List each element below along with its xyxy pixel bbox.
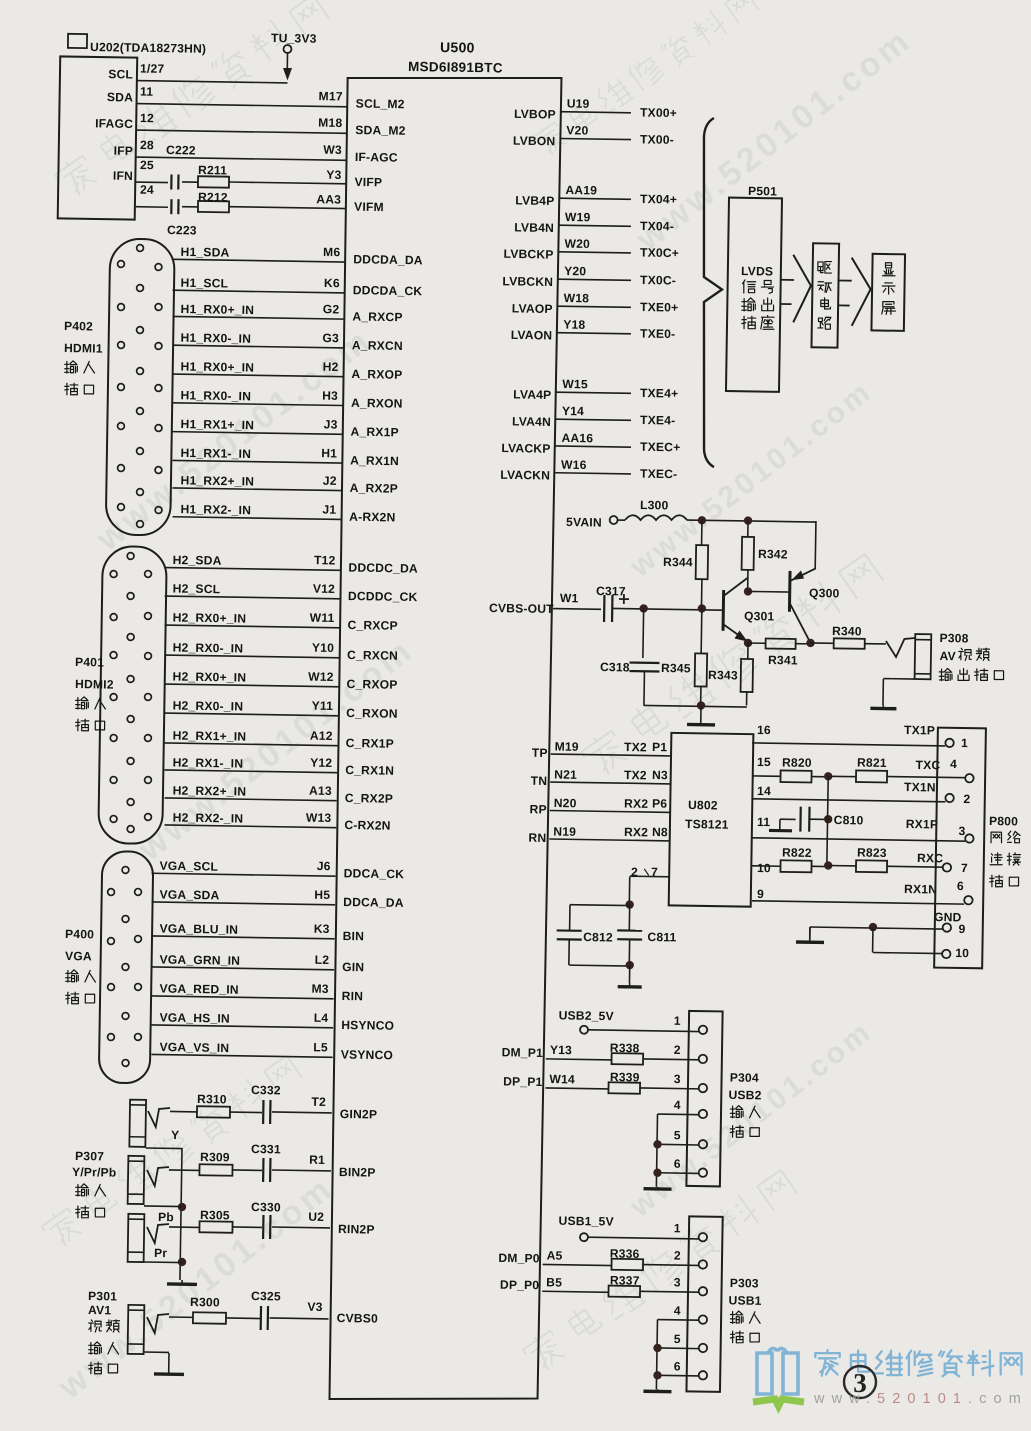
svg-text:LVA4N: LVA4N — [512, 414, 551, 429]
wire cap to R212 — [182, 206, 198, 208]
svg-text:U802: U802 — [688, 798, 718, 812]
svg-text:R341: R341 — [768, 653, 798, 667]
wire U802 pin2,7 down to caps — [630, 875, 670, 878]
wire H2_RX1+_IN to U500 pin A12 — [165, 743, 338, 746]
junction dot GND — [869, 923, 878, 932]
svg-text:R337: R337 — [610, 1273, 640, 1287]
P800 pin circles — [945, 739, 954, 748]
svg-text:A_RXOP: A_RXOP — [351, 367, 402, 382]
wire H1_RX0+_IN to U500 pin H2 — [172, 374, 343, 377]
svg-text:4: 4 — [674, 1304, 681, 1318]
wire R342 top — [747, 521, 749, 537]
capacitor C222 on IFN row — [170, 174, 172, 189]
label port chinese 插口 — [76, 719, 105, 731]
svg-text:P303: P303 — [730, 1276, 759, 1290]
label input-port chinese 插口 — [65, 383, 94, 395]
svg-text:A_RX2P: A_RX2P — [350, 481, 398, 496]
P400 pin circles — [108, 889, 115, 896]
connector P307 jack Pb body — [128, 1156, 145, 1204]
wire R340 to P308 plug — [865, 643, 886, 645]
svg-text:LVB4P: LVB4P — [515, 193, 554, 208]
label chinese 插口 — [730, 1125, 759, 1137]
wire pin10 to R822 — [752, 865, 780, 867]
svg-text:R212: R212 — [198, 190, 228, 204]
P402 pin circles — [118, 261, 125, 268]
svg-text:C222: C222 — [166, 143, 196, 157]
svg-text:CVBS0: CVBS0 — [337, 1311, 379, 1326]
wire R338 to P304 pin2 — [643, 1058, 699, 1061]
wire H1_RX2+_IN to U500 pin J2 — [172, 488, 341, 491]
svg-text:P401: P401 — [75, 655, 104, 669]
label chinese 输出插口 — [939, 668, 1004, 682]
wire H2_RX2+_IN to U500 pin A13 — [165, 798, 337, 801]
svg-text:VIFM: VIFM — [354, 200, 384, 214]
svg-text:2: 2 — [674, 1043, 681, 1057]
wire R342 bottom to base node — [747, 570, 749, 592]
wire RN to U802 pin N8 — [549, 839, 670, 841]
resistor R212 — [198, 201, 229, 212]
arrowhead TU_3V3 — [283, 68, 292, 81]
svg-text:15: 15 — [757, 755, 771, 769]
wire LVBCKP to TX0C+ — [559, 252, 631, 253]
svg-text:R343: R343 — [708, 668, 738, 682]
brace grouping LVDS signals — [699, 118, 725, 467]
svg-text:6: 6 — [957, 879, 964, 893]
svg-text:N3: N3 — [652, 768, 668, 782]
svg-text:B5: B5 — [546, 1275, 562, 1289]
svg-text:A13: A13 — [309, 784, 332, 798]
svg-text:W3: W3 — [323, 143, 342, 157]
label input chinese 输入 — [76, 1184, 106, 1197]
wire SCL from U202 to TU_3V3 — [136, 81, 287, 83]
wire R344 bottom to CVBS node — [700, 579, 702, 608]
wire GND to ground — [809, 927, 811, 942]
svg-text:H5: H5 — [314, 888, 330, 902]
svg-text:RX2: RX2 — [624, 825, 648, 839]
svg-text:C_RXCN: C_RXCN — [347, 648, 398, 663]
svg-text:DM_P1: DM_P1 — [502, 1045, 544, 1060]
wire R305 to C330 — [232, 1226, 261, 1228]
svg-text:RX2: RX2 — [624, 796, 648, 810]
svg-text:VGA_SDA: VGA_SDA — [159, 887, 219, 902]
Q300 emitter diagonal — [790, 568, 816, 582]
wire LVBON to TX00- — [560, 138, 631, 139]
label video chinese 视频 — [89, 1319, 120, 1332]
wire C331 to U500 pin R1 — [272, 1169, 331, 1172]
svg-text:C_RX1P: C_RX1P — [346, 736, 394, 751]
wire H2_RX0+_IN to U500 pin W12 — [165, 684, 339, 687]
svg-text:DP_P1: DP_P1 — [503, 1074, 543, 1089]
svg-text:H2_RX0-_IN: H2_RX0-_IN — [173, 698, 244, 713]
svg-text:AA3: AA3 — [316, 192, 341, 206]
capacitor C332 — [262, 1100, 265, 1124]
cap bottom rail wire — [569, 964, 629, 967]
svg-text:LVDS: LVDS — [741, 264, 773, 279]
wire base node to Q300 — [748, 590, 790, 593]
capacitor C317 electrolytic — [603, 595, 606, 622]
wire R823 to P800 pin7 — [887, 865, 943, 868]
wire Y row to R310 — [170, 1110, 197, 1112]
svg-text:V20: V20 — [566, 123, 588, 137]
vertical junction wire R820-C810-R822 — [827, 776, 828, 865]
svg-text:9: 9 — [757, 887, 764, 901]
svg-text:C811: C811 — [647, 930, 676, 944]
svg-text:IFN: IFN — [113, 169, 133, 183]
wire pin24 row to cap — [136, 206, 168, 209]
wire LVACKN to TXEC- — [555, 473, 631, 474]
svg-text:TU_3V3: TU_3V3 — [271, 31, 317, 46]
svg-text:5: 5 — [674, 1332, 681, 1346]
svg-text:LVACKP: LVACKP — [501, 441, 550, 456]
junction dot R822-R823 — [824, 861, 833, 870]
junction dot cap top rail — [625, 900, 634, 909]
svg-text:A-RX2N: A-RX2N — [349, 510, 395, 525]
svg-text:USB1_5V: USB1_5V — [559, 1214, 614, 1229]
wire LVB4N to TX04- — [559, 225, 631, 226]
resistor R309 — [199, 1164, 232, 1176]
wire R211 to U500 pin Y3 — [229, 182, 346, 184]
wire VGA_HS_IN to U500 pin L4 — [152, 1025, 334, 1028]
wire R345 bottom — [700, 686, 702, 705]
wire R300 to C325 — [226, 1317, 260, 1320]
wire LVACKP to TXEC+ — [555, 446, 630, 447]
svg-text:DP_P0: DP_P0 — [500, 1278, 540, 1293]
wire DM_P1 to R338 — [546, 1059, 612, 1060]
label chinese 连接 — [990, 852, 1020, 865]
jack Pb center pin plug — [147, 1167, 169, 1187]
svg-text:C317: C317 — [596, 584, 626, 598]
svg-text:VIFP: VIFP — [354, 175, 382, 189]
svg-text:SDA_M2: SDA_M2 — [355, 123, 406, 138]
ground symbol GND row — [809, 927, 811, 942]
wire H1_RX0+_IN to U500 pin G2 — [172, 316, 344, 319]
svg-text:IFAGC: IFAGC — [95, 116, 133, 131]
svg-text:RIN: RIN — [342, 989, 364, 1003]
wire L300 to rail corner — [687, 520, 816, 522]
wire IFAGC to U500 pin M18 — [136, 130, 347, 133]
connector P501 LVDS output socket body — [726, 198, 782, 392]
wire IFP to U500 pin W3 — [136, 157, 347, 160]
svg-text:16: 16 — [757, 723, 771, 737]
svg-text:R821: R821 — [857, 756, 887, 770]
svg-text:9: 9 — [958, 922, 965, 936]
wire junction to R821 — [828, 775, 856, 777]
svg-text:VGA_HS_IN: VGA_HS_IN — [159, 1011, 230, 1026]
svg-text:H1_RX2-_IN: H1_RX2-_IN — [180, 502, 251, 517]
ground bus wire of P307 jacks — [146, 1147, 182, 1150]
svg-text:1/27: 1/27 — [140, 61, 165, 75]
label input-port chinese 输入 — [65, 361, 95, 374]
transistor Q301 base bar — [722, 590, 726, 631]
connector P308 jack body — [915, 634, 932, 679]
svg-text:TX0C+: TX0C+ — [640, 246, 679, 261]
svg-text:DDCDC_DA: DDCDC_DA — [348, 561, 418, 576]
svg-text:25: 25 — [140, 158, 154, 172]
svg-text:L2: L2 — [315, 953, 330, 967]
svg-text:HDMI1: HDMI1 — [64, 341, 103, 356]
block driver circuit 驱动电路 body — [811, 243, 839, 347]
svg-text:K3: K3 — [314, 922, 330, 936]
svg-text:W18: W18 — [564, 291, 590, 305]
wire R337 to P303 pin3 — [640, 1290, 699, 1293]
label chinese 视频 — [959, 648, 990, 661]
svg-text:10: 10 — [757, 861, 771, 875]
svg-text:RX1P: RX1P — [906, 817, 939, 832]
junction dot ground bus pin6 — [653, 1371, 662, 1380]
svg-text:H2_SCL: H2_SCL — [173, 581, 221, 596]
wire TU_3V3 vertical into SCL line — [286, 53, 288, 70]
svg-text:H2_RX2+_IN: H2_RX2+_IN — [173, 783, 247, 798]
wire H1_SDA to U500 pin M6 — [172, 259, 345, 262]
wire H1_SCL to U500 pin K6 — [172, 290, 344, 293]
svg-text:TX04+: TX04+ — [640, 192, 677, 207]
svg-text:C325: C325 — [251, 1289, 281, 1303]
svg-text:6: 6 — [674, 1359, 681, 1373]
svg-text:DCDDC_CK: DCDDC_CK — [348, 589, 418, 604]
svg-text:TXEC+: TXEC+ — [640, 440, 681, 455]
Q301 emitter arrowhead — [734, 630, 747, 641]
wire USB2_5V to P304 pin1 — [588, 1030, 699, 1032]
svg-text:R338: R338 — [610, 1041, 640, 1055]
svg-text:P6: P6 — [652, 797, 667, 811]
svg-text:1: 1 — [674, 1221, 681, 1235]
svg-text:L5: L5 — [313, 1040, 328, 1054]
wire rail down to Q300 emitter — [814, 521, 817, 568]
wire junction to R823 — [828, 864, 856, 866]
label chinese 插口 — [730, 1331, 759, 1343]
logo circled 3 — [844, 1366, 876, 1398]
wire C332 to U500 pin T2 — [272, 1111, 332, 1114]
svg-text:C_RXON: C_RXON — [346, 706, 398, 721]
junction dot ground bus pin5 — [653, 1344, 662, 1353]
svg-text:DM_P0: DM_P0 — [498, 1251, 540, 1266]
resistor R338 — [611, 1053, 643, 1064]
wire GND row — [810, 927, 943, 929]
terminal circle 5VAIN — [610, 516, 618, 524]
svg-text:H1_RX0+_IN: H1_RX0+_IN — [180, 302, 254, 317]
svg-text:H2_RX0+_IN: H2_RX0+_IN — [173, 669, 247, 684]
wire R212 to U500 pin AA3 — [229, 207, 346, 209]
wire DP_P0 to R337 — [542, 1291, 608, 1292]
wire emitter node to R341 — [748, 642, 766, 644]
svg-text:AV: AV — [939, 649, 956, 663]
svg-text:R211: R211 — [198, 163, 227, 177]
resistor R336 — [611, 1259, 643, 1270]
svg-text:C_RX2P: C_RX2P — [345, 791, 393, 806]
wire R336 to P303 pin2 — [643, 1264, 699, 1267]
label chinese 网络 — [991, 831, 1020, 843]
svg-text:VGA_BLU_IN: VGA_BLU_IN — [159, 921, 238, 936]
wire AV1 jack to R300 — [169, 1316, 193, 1318]
capacitor C810 — [799, 807, 802, 832]
svg-text:2: 2 — [963, 792, 970, 806]
wire LVBOP to TX00+ — [561, 112, 631, 113]
text chinese 信号 inside P501 — [742, 280, 773, 294]
wire LVAON to TXE0- — [557, 333, 631, 334]
svg-text:N8: N8 — [652, 825, 668, 839]
junction dot Q300 base node — [744, 587, 753, 596]
svg-text:LVBOP: LVBOP — [514, 107, 556, 122]
svg-text:Y11: Y11 — [312, 699, 334, 713]
svg-text:DDCDA_DA: DDCDA_DA — [353, 252, 423, 267]
svg-text:P304: P304 — [730, 1070, 759, 1084]
flow arrow P501 to driver — [781, 279, 794, 281]
ground symbol P304 — [656, 1187, 658, 1189]
svg-text:A_RX1N: A_RX1N — [350, 453, 399, 468]
svg-text:SCL: SCL — [108, 67, 133, 81]
connector P400 VGA body — [99, 851, 154, 1083]
svg-text:Y14: Y14 — [562, 404, 584, 418]
capacitor C812 — [557, 929, 582, 932]
svg-text:Y18: Y18 — [563, 317, 585, 331]
svg-text:U500: U500 — [440, 39, 475, 56]
svg-text:R344: R344 — [663, 555, 693, 569]
junction dot cap bottom rail — [625, 961, 634, 970]
svg-text:SDA: SDA — [107, 90, 133, 104]
svg-text:W19: W19 — [565, 210, 591, 224]
svg-text:U19: U19 — [567, 96, 590, 110]
svg-text:4: 4 — [674, 1098, 681, 1112]
connector P307 jack Y body — [129, 1100, 146, 1147]
svg-text:VGA_RED_IN: VGA_RED_IN — [159, 982, 239, 997]
connector P401 HDMI2 body — [98, 546, 167, 844]
wire H1_RX1-_IN to U500 pin H1 — [173, 460, 342, 463]
svg-text:VGA: VGA — [65, 949, 92, 963]
svg-text:P301: P301 — [88, 1289, 117, 1303]
wire CVBS node down to C318 — [642, 608, 645, 657]
svg-text:U202(TDA18273HN): U202(TDA18273HN) — [90, 40, 206, 56]
wire C810 to junction — [810, 818, 829, 820]
svg-text:Q301: Q301 — [744, 609, 775, 623]
svg-text:H3: H3 — [322, 389, 338, 403]
wire pin9 to P800 pin6 — [752, 901, 964, 904]
junction dot ground bus pin6 — [653, 1168, 662, 1177]
wire VGA_GRN_IN to U500 pin L2 — [151, 967, 334, 970]
wire pin15 to R820 — [752, 775, 780, 777]
svg-text:5VAIN: 5VAIN — [566, 515, 602, 530]
svg-text:V12: V12 — [313, 582, 335, 596]
svg-text:C_RXOP: C_RXOP — [347, 677, 398, 692]
junction dot Pb jack ground — [178, 1203, 187, 1212]
svg-text:RXC: RXC — [917, 851, 943, 865]
junction dot ground bus pin5 — [653, 1140, 662, 1149]
resistor R821 — [856, 770, 887, 782]
capacitor C811 — [617, 929, 642, 932]
junction dot rail R344 — [698, 516, 707, 525]
svg-text:TXE4+: TXE4+ — [640, 386, 679, 401]
wire DM_P0 to R336 — [543, 1264, 613, 1265]
svg-text:H2_RX0+_IN: H2_RX0+_IN — [173, 610, 247, 625]
text chinese 输出 inside P501 — [742, 298, 774, 312]
junction dot R344-R345 node — [698, 604, 707, 613]
wire H2_RX2-_IN to U500 pin W13 — [165, 825, 337, 828]
wire H1_RX0-_IN to U500 pin H3 — [173, 403, 343, 406]
svg-text:AA16: AA16 — [561, 431, 593, 445]
wire H1_RX2-_IN to U500 pin J1 — [173, 517, 342, 520]
wire pin11 ground step — [780, 818, 796, 820]
junction dot C810 — [824, 815, 833, 824]
wire H2_RX0-_IN to U500 pin Y11 — [165, 713, 338, 716]
svg-text:C_RXCP: C_RXCP — [347, 618, 397, 633]
terminal circle USB1_5V — [580, 1233, 588, 1241]
connector P402 HDMI1 body — [106, 239, 175, 536]
svg-text:11: 11 — [140, 84, 153, 98]
svg-text:P307: P307 — [75, 1149, 104, 1163]
text chinese 显示屏 vertical — [882, 263, 896, 315]
svg-text:GIN2P: GIN2P — [340, 1107, 378, 1122]
wire H2_RX0+_IN to U500 pin W11 — [165, 625, 340, 628]
svg-text:W14: W14 — [549, 1072, 575, 1086]
svg-text:R305: R305 — [200, 1208, 230, 1222]
svg-text:RN: RN — [528, 831, 546, 845]
svg-text:DDCA_DA: DDCA_DA — [343, 895, 404, 910]
svg-text:C332: C332 — [251, 1083, 281, 1097]
terminal circle USB2_5V — [580, 1026, 588, 1034]
svg-text:1: 1 — [674, 1014, 681, 1028]
svg-text:TXEC-: TXEC- — [640, 467, 677, 482]
label chinese 插口 — [990, 875, 1019, 887]
wire R309 to C331 — [232, 1169, 261, 1171]
ground symbol P303 — [656, 1389, 658, 1391]
svg-text:N21: N21 — [554, 767, 577, 781]
resistor R822 — [780, 860, 811, 872]
svg-text:HDMI2: HDMI2 — [75, 677, 114, 692]
wire LVB4P to TX04+ — [559, 198, 631, 199]
resistor R337 — [608, 1286, 640, 1297]
inductor L300 — [625, 514, 687, 521]
svg-text:BIN: BIN — [343, 929, 365, 943]
svg-text:R300: R300 — [190, 1295, 220, 1309]
P304 pin circles — [699, 1026, 708, 1035]
ground symbol below C811 — [629, 983, 631, 987]
svg-text:2: 2 — [674, 1249, 681, 1263]
svg-text:Y: Y — [171, 1128, 180, 1142]
svg-text:LVBON: LVBON — [513, 134, 556, 149]
connector P800 body — [934, 728, 986, 969]
svg-text:A_RX1P: A_RX1P — [350, 425, 398, 440]
svg-text:LVB4N: LVB4N — [514, 220, 554, 235]
svg-text:BIN2P: BIN2P — [339, 1165, 376, 1180]
svg-text:M17: M17 — [319, 89, 343, 103]
svg-text:H1_RX1+_IN: H1_RX1+_IN — [180, 417, 254, 432]
svg-text:TX0C-: TX0C- — [640, 273, 676, 288]
label port chinese 插口 — [89, 1362, 118, 1374]
svg-text:LVAOP: LVAOP — [512, 301, 553, 316]
svg-text:Pb: Pb — [158, 1210, 174, 1224]
svg-text:H2_RX1-_IN: H2_RX1-_IN — [173, 755, 244, 770]
wire LVA4N to TXE4- — [556, 419, 631, 420]
svg-text:A12: A12 — [310, 729, 333, 743]
junction dot rail R342 — [744, 516, 753, 525]
svg-text:11: 11 — [757, 815, 770, 829]
svg-text:LVAON: LVAON — [511, 328, 553, 343]
svg-text:J2: J2 — [323, 474, 337, 488]
wire C812 bottom — [568, 939, 570, 965]
svg-text:VSYNCO: VSYNCO — [341, 1047, 393, 1062]
wire SDA to U500 pin M17 — [136, 104, 348, 107]
svg-text:R336: R336 — [610, 1247, 640, 1261]
cap top rail wire — [570, 904, 630, 907]
resistor R345 — [695, 653, 708, 686]
svg-text:TX2: TX2 — [624, 740, 647, 754]
svg-text:A5: A5 — [547, 1249, 563, 1263]
wire R820 to junction — [812, 776, 828, 778]
text chinese 插座 inside P501 — [742, 315, 775, 329]
svg-text:5: 5 — [674, 1128, 681, 1142]
Q300 collector diagonal — [790, 604, 812, 643]
wire H2_SCL to U500 pin V12 — [165, 596, 340, 599]
svg-text:LVBCKN: LVBCKN — [502, 274, 553, 289]
